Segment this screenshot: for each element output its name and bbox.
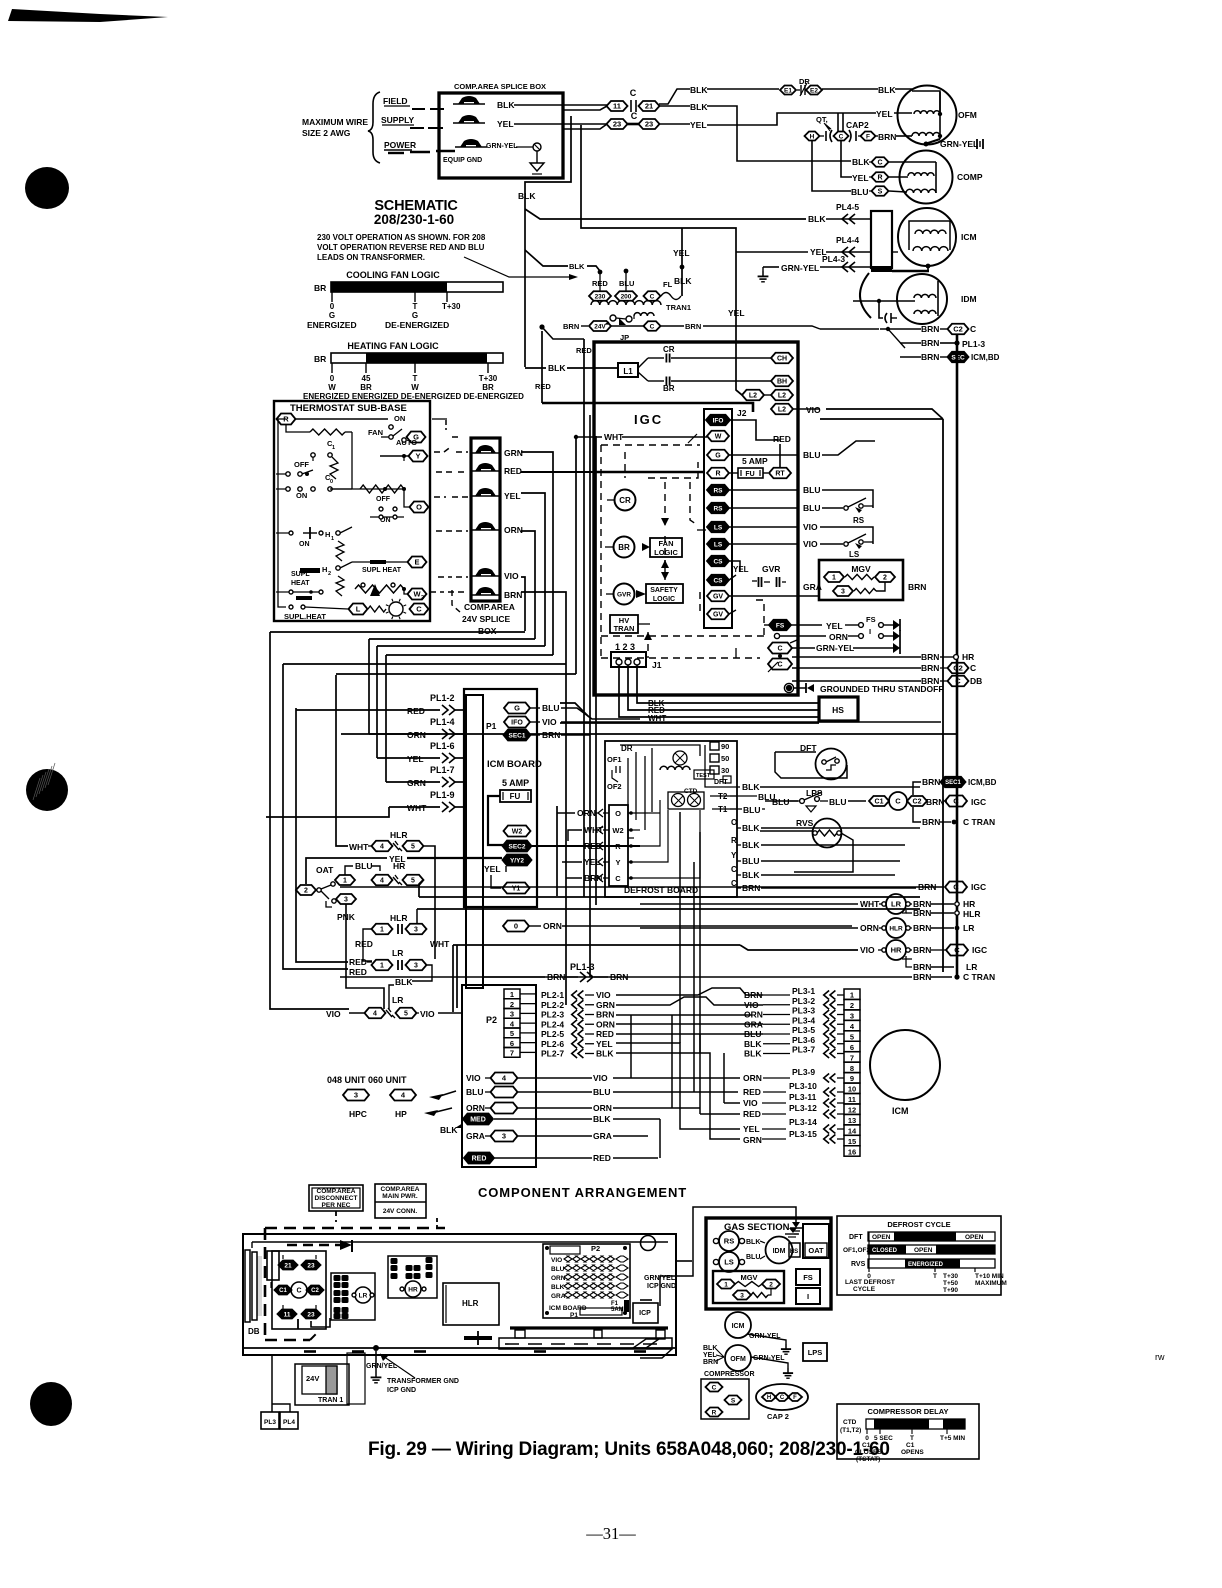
svg-text:QT,: QT, — [816, 115, 828, 124]
svg-text:R: R — [712, 1409, 717, 1416]
svg-text:BRN: BRN — [913, 972, 931, 982]
svg-text:BOX: BOX — [478, 626, 497, 636]
wire icm bottom — [892, 270, 929, 272]
svg-text:BLK: BLK — [744, 1039, 762, 1049]
circle CR igc — [615, 490, 636, 511]
svg-text:C2: C2 — [311, 1288, 319, 1294]
svg-text:ON: ON — [296, 491, 307, 500]
svg-text:90: 90 — [721, 742, 729, 751]
svg-text:LS: LS — [724, 1258, 734, 1267]
svg-text:0: 0 — [330, 374, 335, 383]
wire IFO red — [729, 420, 780, 440]
wire yel row — [659, 123, 690, 125]
svg-text:23: 23 — [645, 120, 653, 129]
wire red long — [521, 471, 593, 473]
svg-text:C1: C1 — [875, 799, 884, 806]
svg-text:LEADS ON TRANSFORMER.: LEADS ON TRANSFORMER. — [317, 253, 425, 262]
svg-text:C: C — [777, 646, 782, 653]
svg-text:P1: P1 — [486, 721, 497, 731]
svg-text:VIO: VIO — [860, 945, 875, 955]
svg-text:G: G — [329, 311, 335, 320]
hex GV1 — [707, 591, 729, 602]
wire hlr3 up — [427, 910, 432, 929]
wire grn-yel ofm — [925, 139, 940, 144]
dashed hookup — [335, 1211, 337, 1222]
wire blk to L1 — [525, 367, 546, 369]
svg-text:BRN: BRN — [913, 945, 931, 955]
unit outline — [243, 1234, 676, 1355]
svg-text:L1: L1 — [623, 367, 633, 376]
svg-text:C: C — [416, 605, 422, 614]
hex SEC2 icm — [503, 841, 532, 852]
svg-text:GRN-YEL: GRN-YEL — [781, 263, 819, 273]
svg-text:BLK: BLK — [742, 840, 760, 850]
svg-text:W2: W2 — [612, 826, 623, 835]
hex mgv 2 — [875, 572, 895, 582]
comp area 24v splice box — [471, 438, 500, 601]
svg-text:VIO: VIO — [743, 1098, 758, 1108]
svg-text:IFO: IFO — [713, 417, 724, 424]
svg-text:3: 3 — [414, 927, 418, 934]
hex Y1 icm — [503, 883, 530, 894]
svg-text:L2: L2 — [778, 393, 786, 400]
svg-text:5: 5 — [411, 844, 415, 851]
svg-text:LOGIC: LOGIC — [653, 596, 675, 603]
svg-text:HP: HP — [395, 1109, 407, 1119]
terminal C tran — [644, 291, 661, 301]
grn-yel transformer gnd — [373, 1345, 379, 1351]
svg-text:G: G — [412, 311, 418, 320]
svg-text:SEC2: SEC2 — [509, 843, 526, 850]
bundle line 3 — [296, 708, 348, 962]
tall rect tran — [347, 1353, 365, 1404]
svg-text:BRN: BRN — [596, 1010, 614, 1020]
wire brn to OFM — [876, 135, 878, 137]
brace maximum wire — [368, 92, 380, 163]
svg-text:BLK: BLK — [548, 363, 566, 373]
svg-text:I: I — [807, 1292, 809, 1301]
svg-text:15: 15 — [848, 1137, 856, 1146]
weave wire row1 — [616, 987, 763, 995]
svg-text:3: 3 — [414, 963, 418, 970]
svg-text:W: W — [411, 383, 419, 392]
compressor delay ticks — [866, 1429, 868, 1434]
svg-text:HR: HR — [891, 946, 902, 955]
svg-text:W: W — [715, 434, 722, 441]
svg-text:R: R — [731, 836, 737, 845]
svg-text:BRN: BRN — [610, 972, 628, 982]
svg-text:P2: P2 — [486, 1015, 497, 1025]
terminal G — [407, 432, 426, 443]
triangle indicator — [370, 584, 380, 596]
svg-text:BLU: BLU — [619, 279, 634, 288]
svg-text:BLK: BLK — [742, 823, 760, 833]
contact LS — [844, 542, 848, 546]
c tran branch — [913, 807, 921, 822]
svg-text:PL2-6: PL2-6 — [541, 1039, 564, 1049]
comp area splice box — [439, 93, 563, 178]
wire cap C down to yel-R — [841, 141, 852, 177]
svg-text:CAP 2: CAP 2 — [767, 1412, 789, 1421]
svg-text:H: H — [322, 565, 327, 574]
wire thick to J2 — [541, 331, 543, 403]
svg-text:RS: RS — [724, 1237, 734, 1246]
svg-text:IGC: IGC — [972, 945, 987, 955]
dashed wires to thermostat — [432, 418, 447, 420]
svg-text:11: 11 — [613, 102, 621, 111]
svg-text:FL: FL — [663, 280, 673, 289]
svg-text:RED: RED — [596, 1029, 614, 1039]
svg-text:RVS: RVS — [796, 818, 814, 828]
svg-text:DEFROST CYCLE: DEFROST CYCLE — [887, 1220, 950, 1229]
svg-text:PL1-3: PL1-3 — [570, 962, 595, 972]
wire cap H down to blu-S — [812, 141, 851, 191]
wire blk top row — [659, 89, 690, 104]
wire yel to terminal 23 — [514, 123, 607, 125]
wire red vertical long — [583, 339, 585, 897]
bottom rails — [243, 1347, 676, 1349]
i box ca — [796, 1288, 820, 1304]
svg-text:PL2-3: PL2-3 — [541, 1010, 564, 1020]
hv tran box — [610, 615, 638, 633]
svg-text:BLK: BLK — [551, 1284, 565, 1291]
svg-text:SEC1: SEC1 — [945, 780, 961, 786]
svg-text:LR: LR — [359, 1292, 368, 1299]
svg-text:BLK: BLK — [852, 157, 870, 167]
svg-text:VIO: VIO — [420, 1009, 435, 1019]
hex RS1 — [707, 485, 729, 496]
hex C2 ca — [307, 1286, 324, 1295]
hex 11 ca — [278, 1310, 297, 1319]
svg-text:C: C — [296, 1288, 301, 1295]
svg-text:BR: BR — [482, 383, 494, 392]
test pads — [694, 770, 714, 779]
hex IFO icm — [504, 717, 530, 728]
svg-text:C1: C1 — [862, 1442, 871, 1449]
svg-text:30: 30 — [721, 766, 729, 775]
svg-text:C2: C2 — [953, 325, 963, 334]
svg-text:BRN: BRN — [922, 777, 940, 787]
hex 23 ca — [302, 1261, 321, 1270]
svg-text:HLR: HLR — [462, 1299, 479, 1308]
hex RS2 — [707, 503, 729, 514]
terminal E — [408, 557, 427, 568]
svg-text:HR: HR — [393, 861, 405, 871]
svg-text:DFT: DFT — [849, 1234, 863, 1241]
bus bottom lines — [452, 945, 454, 1012]
svg-text:YEL: YEL — [826, 621, 843, 631]
hex 23b ca — [302, 1310, 321, 1319]
svg-text:HR: HR — [963, 899, 975, 909]
P1 column — [466, 695, 483, 988]
pl3 pl4 boxes — [271, 1355, 273, 1412]
svg-text:VIO: VIO — [593, 1073, 608, 1083]
svg-text:ICP GND: ICP GND — [647, 1283, 676, 1290]
hex G icm — [504, 703, 530, 714]
hex 5 hlr — [403, 841, 424, 852]
svg-text:T: T — [910, 1435, 914, 1442]
svg-text:HEATING FAN LOGIC: HEATING FAN LOGIC — [347, 341, 439, 351]
svg-text:HEAT: HEAT — [291, 580, 310, 587]
svg-text:2: 2 — [883, 575, 887, 582]
defrost connector — [609, 805, 628, 886]
contactor box — [272, 1251, 326, 1329]
svg-text:ICM,BD: ICM,BD — [971, 353, 1000, 362]
svg-text:L2: L2 — [749, 393, 757, 400]
svg-text:GRA: GRA — [466, 1131, 485, 1141]
svg-text:O: O — [731, 818, 737, 827]
svg-text:6: 6 — [510, 1039, 514, 1048]
defrost cycle table — [837, 1216, 1001, 1295]
svg-text:RED: RED — [593, 1153, 611, 1163]
svg-text:PL2-7: PL2-7 — [541, 1049, 564, 1059]
svg-text:CTD: CTD — [843, 1419, 857, 1426]
circle BR igc — [614, 537, 635, 558]
svg-text:rw: rw — [1155, 1352, 1165, 1362]
svg-text:RVS: RVS — [851, 1261, 866, 1268]
equip gnd symbol — [536, 151, 538, 163]
svg-text:C: C — [650, 323, 655, 330]
weave vertical a — [616, 1014, 752, 1016]
hex 5 hr — [403, 875, 424, 886]
icm board box — [464, 689, 537, 907]
svg-text:MGV: MGV — [851, 564, 871, 574]
svg-text:PL3: PL3 — [264, 1419, 276, 1426]
svg-text:4: 4 — [380, 844, 384, 851]
wire yel fork down to L2 — [581, 125, 742, 395]
HS box — [819, 697, 858, 721]
hex C2 — [907, 796, 927, 806]
svg-text:COMP: COMP — [957, 172, 983, 182]
terminal L — [349, 604, 368, 615]
svg-text:HLR: HLR — [390, 913, 407, 923]
svg-text:SEC1: SEC1 — [509, 732, 526, 739]
wire GV1 row — [729, 595, 819, 597]
svg-text:S: S — [878, 189, 883, 196]
terminal R — [277, 414, 296, 425]
svg-text:CR: CR — [663, 345, 675, 354]
svg-text:SUPL: SUPL — [291, 571, 310, 578]
svg-text:HPC: HPC — [349, 1109, 367, 1119]
svg-text:RED: RED — [743, 1087, 761, 1097]
diag from dot — [888, 329, 905, 348]
svg-text:Fig. 29 — Wiring Diagram; Unit: Fig. 29 — Wiring Diagram; Units 658A048,… — [368, 1439, 890, 1460]
bundle line 1 — [270, 632, 349, 1009]
hex RED — [464, 1153, 494, 1164]
svg-text:OPEN: OPEN — [914, 1247, 933, 1254]
svg-text:J1: J1 — [652, 660, 662, 670]
svg-text:COMP.AREA: COMP.AREA — [317, 1188, 356, 1195]
comp area disconnect box — [309, 1185, 363, 1211]
svg-text:GRN: GRN — [504, 448, 523, 458]
weave vertical c — [613, 1034, 690, 1078]
svg-text:GV: GV — [713, 612, 723, 619]
contactor wires — [297, 1319, 299, 1329]
svg-text:7: 7 — [850, 1053, 854, 1062]
motor IDM — [897, 274, 947, 324]
comp area main pwr box — [375, 1184, 426, 1218]
svg-text:PL3-3: PL3-3 — [792, 1006, 815, 1016]
icp box — [633, 1303, 658, 1323]
gas section box — [706, 1218, 831, 1309]
transformer secondary — [634, 313, 654, 316]
wire orn hlr row — [640, 927, 858, 929]
svg-text:IFO: IFO — [511, 720, 523, 727]
svg-text:BLK: BLK — [878, 85, 896, 95]
svg-text:C: C — [650, 293, 655, 300]
svg-text:BRN: BRN — [921, 338, 939, 348]
wire RS1 blu — [729, 489, 798, 491]
svg-text:GRA: GRA — [551, 1293, 566, 1300]
svg-text:C: C — [712, 1384, 717, 1391]
cap BR — [638, 372, 648, 381]
ctd contacts — [672, 794, 685, 807]
wire brn pl1-3 row — [900, 342, 921, 344]
svg-text:3: 3 — [510, 1010, 514, 1019]
hex G — [707, 450, 729, 461]
svg-text:LS: LS — [714, 524, 723, 531]
svg-text:1: 1 — [380, 963, 384, 970]
svg-text:PL1-3: PL1-3 — [962, 339, 985, 349]
hex SEC1 icm — [504, 730, 531, 741]
svg-text:FAN: FAN — [659, 539, 674, 548]
svg-text:FS: FS — [776, 622, 785, 629]
note arrow — [464, 257, 569, 277]
svg-text:BRN: BRN — [921, 324, 939, 334]
svg-text:DB: DB — [970, 676, 982, 686]
svg-text:LAST DEFROST: LAST DEFROST — [845, 1279, 895, 1286]
right bus vertical — [956, 334, 959, 977]
svg-text:GRN: GRN — [407, 778, 426, 788]
svg-text:LS: LS — [849, 550, 860, 559]
svg-text:THERMOSTAT SUB-BASE: THERMOSTAT SUB-BASE — [290, 403, 407, 414]
gas unit stub — [676, 1260, 692, 1262]
svg-text:T+50: T+50 — [943, 1280, 958, 1287]
svg-text:R: R — [877, 175, 882, 182]
svg-text:BLK: BLK — [746, 1239, 760, 1246]
svg-text:BR: BR — [314, 283, 326, 293]
svg-text:RED: RED — [349, 967, 367, 977]
hex R — [707, 468, 729, 479]
svg-text:YEL: YEL — [504, 491, 521, 501]
svg-text:WHT: WHT — [349, 842, 369, 852]
svg-text:YEL: YEL — [673, 248, 690, 258]
svg-text:2: 2 — [510, 1000, 514, 1009]
wire vio row right — [561, 721, 941, 723]
svg-text:PL3-7: PL3-7 — [792, 1045, 815, 1055]
svg-text:PL3-2: PL3-2 — [792, 996, 815, 1006]
svg-text:SUPPLY: SUPPLY — [381, 115, 415, 125]
svg-text:PL3-14: PL3-14 — [789, 1117, 817, 1127]
rs sensor — [719, 1231, 739, 1251]
svg-text:C: C — [877, 160, 882, 167]
bundle line B — [369, 638, 535, 640]
wire g-blu path — [822, 441, 875, 455]
svg-text:C TRAN: C TRAN — [963, 817, 995, 827]
svg-text:BLK: BLK — [569, 262, 585, 271]
defrost left wire stubs — [557, 812, 575, 814]
svg-text:ORN: ORN — [577, 808, 596, 818]
svg-text:200: 200 — [621, 293, 632, 300]
svg-text:C: C — [615, 874, 621, 883]
weave vertical e — [616, 1053, 740, 1139]
svg-text:OFM: OFM — [730, 1356, 746, 1363]
wire hlr2 — [363, 929, 372, 952]
svg-text:I: I — [869, 627, 871, 636]
svg-text:5: 5 — [404, 1011, 408, 1018]
svg-text:PL2-1: PL2-1 — [541, 990, 564, 1000]
svg-text:GRN/YEL: GRN/YEL — [366, 1363, 398, 1370]
svg-text:5 AMP: 5 AMP — [502, 778, 529, 788]
dashed control lines igc — [601, 444, 700, 446]
svg-text:H: H — [810, 133, 815, 140]
svg-text:O: O — [615, 809, 621, 818]
motor OFM — [898, 86, 957, 145]
svg-text:G: G — [413, 433, 419, 442]
svg-text:BRN: BRN — [922, 817, 940, 827]
motor ICM — [898, 208, 956, 266]
svg-text:BLK: BLK — [742, 870, 760, 880]
svg-text:(TSTAT): (TSTAT) — [856, 1456, 880, 1463]
svg-text:5: 5 — [411, 878, 415, 885]
field supply dashed stubs — [412, 108, 425, 110]
svg-text:BRN: BRN — [913, 962, 931, 972]
svg-text:RS: RS — [853, 516, 865, 525]
lamp — [368, 606, 386, 612]
transformer primary coil — [591, 301, 661, 305]
svg-text:BRN: BRN — [926, 797, 944, 807]
wire nut blk — [458, 96, 480, 104]
svg-text:ORN: ORN — [743, 1073, 762, 1083]
svg-text:IGC: IGC — [971, 882, 986, 892]
svg-text:BLU: BLU — [743, 805, 760, 815]
svg-text:VIO: VIO — [803, 539, 818, 549]
svg-text:1: 1 — [331, 536, 334, 542]
svg-text:PL3-9: PL3-9 — [792, 1067, 815, 1077]
svg-text:LR: LR — [966, 962, 977, 972]
svg-text:ORN: ORN — [829, 632, 848, 642]
svg-text:RED: RED — [349, 957, 367, 967]
svg-text:P1: P1 — [570, 1312, 578, 1319]
svg-text:C: C — [631, 111, 638, 121]
svg-text:T: T — [413, 302, 418, 311]
svg-text:DR: DR — [799, 77, 810, 86]
svg-text:CLOSES: CLOSES — [855, 1449, 882, 1456]
svg-text:Y/Y2: Y/Y2 — [510, 857, 524, 864]
wire brn sec row — [900, 356, 921, 358]
hex CS1 — [707, 556, 729, 567]
hex GV2 — [707, 609, 729, 620]
svg-text:PL4-3: PL4-3 — [822, 254, 845, 264]
P2 pin boxes — [504, 989, 520, 999]
svg-text:PL3-12: PL3-12 — [789, 1103, 817, 1113]
svg-text:PL1-6: PL1-6 — [430, 741, 455, 751]
svg-text:BR: BR — [314, 354, 326, 364]
wire CS yel — [729, 561, 740, 572]
compressor delay table — [837, 1404, 979, 1459]
svg-text:C1: C1 — [279, 1288, 287, 1294]
defrost 90 50 30 squares — [710, 742, 719, 750]
wire blk2 row — [659, 105, 690, 107]
dashed corner marks — [445, 420, 447, 430]
svg-text:J2: J2 — [737, 408, 747, 418]
wire G blu — [729, 454, 798, 456]
hex mgv 1 — [824, 572, 844, 582]
cap risers — [837, 113, 839, 131]
svg-text:BLU: BLU — [803, 503, 820, 513]
svg-text:DISCONNECT: DISCONNECT — [315, 1195, 358, 1202]
svg-text:W2: W2 — [512, 829, 523, 836]
